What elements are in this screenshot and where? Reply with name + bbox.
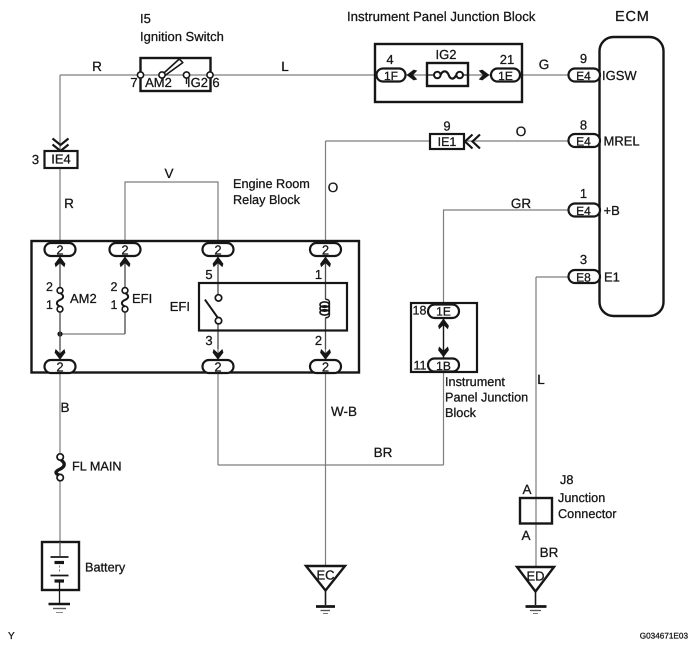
svg-text:B: B <box>60 400 69 415</box>
svg-text:E1: E1 <box>604 270 620 285</box>
fusible link FL MAIN <box>57 454 63 460</box>
svg-text:BR: BR <box>540 545 559 560</box>
relay block top connector 2 (x218) <box>203 243 234 256</box>
svg-text:1: 1 <box>111 298 118 312</box>
svg-text:1: 1 <box>580 186 587 201</box>
svg-text:Block: Block <box>445 406 477 420</box>
wire AM2 column / B down to battery <box>59 243 61 557</box>
down arrow above bottom connector x218 <box>213 349 224 360</box>
svg-text:J8: J8 <box>560 473 573 487</box>
connector 1E <box>491 69 520 82</box>
wire R vertical left column down to relay block <box>59 75 61 243</box>
svg-text:Battery: Battery <box>85 561 126 575</box>
svg-text:1: 1 <box>46 298 53 312</box>
relay EFI box <box>199 283 347 331</box>
connector IE4 chevrons <box>53 139 69 152</box>
svg-text:2: 2 <box>322 242 329 257</box>
up arrow below top connector x218 <box>213 257 224 268</box>
relay block internal wire stubs (darker) <box>60 255 326 350</box>
svg-text:IE1: IE1 <box>438 135 457 149</box>
wire R/L/G horizontal from left corner through ignition switch to ECM IGSW <box>60 74 572 76</box>
instrument panel junction block 2 box <box>411 303 477 372</box>
svg-text:2: 2 <box>322 359 329 374</box>
svg-text:1E: 1E <box>436 305 451 319</box>
svg-text:+B: +B <box>604 203 620 218</box>
svg-text:1E: 1E <box>498 69 513 83</box>
ignition switch AM2 contact <box>159 72 165 78</box>
connector IE4 box <box>45 151 78 168</box>
svg-text:L: L <box>281 59 289 74</box>
svg-text:7: 7 <box>130 75 137 90</box>
battery ground <box>49 603 71 606</box>
svg-text:11: 11 <box>414 359 427 373</box>
wire O vertical down to relay block <box>325 141 327 243</box>
wire relay coil column / W-B down to EC ground <box>325 243 327 566</box>
svg-text:I5: I5 <box>140 11 151 26</box>
connector IE1 box <box>430 134 464 149</box>
svg-text:IG2: IG2 <box>187 75 208 90</box>
svg-text:1B: 1B <box>436 359 451 373</box>
svg-text:5: 5 <box>205 267 212 282</box>
fuse AM2 <box>57 288 63 294</box>
svg-text:Y: Y <box>8 631 15 642</box>
relay block bottom connector 2 (x325) <box>310 360 341 373</box>
relay block top connector 2 (x125) <box>110 243 141 256</box>
svg-text:3: 3 <box>205 333 212 348</box>
fuse EFI <box>122 288 128 294</box>
svg-text:V: V <box>164 166 173 181</box>
svg-text:E4: E4 <box>576 134 591 148</box>
svg-text:FL MAIN: FL MAIN <box>72 460 122 474</box>
svg-text:EFI: EFI <box>132 291 152 306</box>
relay block top connector 2 (x325) <box>310 243 341 256</box>
svg-text:2: 2 <box>46 280 53 294</box>
up arrow below top connector x325 <box>320 257 331 268</box>
svg-text:E4: E4 <box>576 69 591 83</box>
wire GR vertical down to 1E <box>443 210 445 305</box>
svg-text:1F: 1F <box>384 69 398 83</box>
svg-text:A: A <box>522 482 531 497</box>
connector 1F <box>377 69 406 82</box>
wire junction branch AM2 to EFI <box>60 333 125 335</box>
ground ED stem and bars <box>535 592 537 606</box>
wire relay switch column / BR down <box>217 243 219 465</box>
svg-text:Panel Junction: Panel Junction <box>445 391 528 405</box>
ignition switch IG2 contact stem <box>186 78 188 84</box>
engine room relay block box <box>32 241 360 373</box>
svg-text:ECM: ECM <box>615 9 650 25</box>
svg-text:9: 9 <box>443 119 450 134</box>
svg-text:Junction: Junction <box>558 491 605 505</box>
instrument panel junction block 1 box <box>375 44 522 102</box>
wire O/MREL horizontal <box>326 140 573 142</box>
ground ED triangle <box>517 567 554 592</box>
ground EC triangle <box>306 566 345 591</box>
wire EFI fuse column <box>124 243 126 334</box>
ignition switch I5 box <box>141 58 211 91</box>
pin E8-3 E1 <box>569 270 601 283</box>
ground EC stem and bars <box>325 591 327 606</box>
svg-text:E4: E4 <box>576 204 591 218</box>
up arrow below top connector x60 <box>55 257 66 268</box>
arrow right into 1E <box>479 70 490 81</box>
svg-text:AM2: AM2 <box>145 75 172 90</box>
ignition switch pin 6 contact <box>207 72 213 78</box>
svg-text:3: 3 <box>32 152 39 167</box>
arrow line 1E to 1B <box>443 318 445 358</box>
relay block bottom connector 2 (x60) <box>45 360 76 373</box>
pin E4-9 IGSW <box>569 69 601 82</box>
junction dot <box>57 331 62 336</box>
battery plates <box>51 556 69 558</box>
svg-text:O: O <box>328 180 339 195</box>
connector 1B (11) <box>428 359 459 372</box>
ECM box <box>600 37 664 316</box>
svg-text:R: R <box>64 196 74 211</box>
svg-text:IE4: IE4 <box>51 152 71 167</box>
battery box <box>42 542 79 590</box>
wire 1B vertical down to BR <box>443 371 445 465</box>
battery internal wire <box>59 542 61 556</box>
svg-text:1: 1 <box>315 267 322 282</box>
wire L vertical down to ED ground <box>535 277 537 567</box>
svg-text:2: 2 <box>315 333 322 348</box>
svg-text:Ignition Switch: Ignition Switch <box>140 29 224 44</box>
relay block bottom connector 2 (x218) <box>203 360 234 373</box>
svg-text:W-B: W-B <box>331 404 357 419</box>
svg-text:Instrument Panel Junction Bloc: Instrument Panel Junction Block <box>347 9 536 24</box>
svg-text:IG2: IG2 <box>436 47 457 62</box>
svg-text:L: L <box>537 372 545 387</box>
svg-text:R: R <box>92 59 102 74</box>
svg-text:GR: GR <box>511 196 532 211</box>
fuse IG2 element <box>427 74 468 76</box>
svg-text:8: 8 <box>580 118 587 133</box>
down arrow above bottom connector x60 <box>55 349 66 360</box>
wire V loop between relay block pins <box>125 182 218 243</box>
svg-text:2: 2 <box>121 242 128 257</box>
wire GR horizontal to +B <box>443 209 572 211</box>
connector 1E (18) <box>428 305 459 319</box>
svg-text:EC: EC <box>316 568 334 583</box>
pin E4-1 +B <box>569 204 601 217</box>
fuse IG2 box <box>427 63 468 86</box>
relay switch lever <box>205 300 218 318</box>
ignition switch pin 7 contact <box>137 72 143 78</box>
svg-text:G: G <box>539 57 550 72</box>
ignition switch lever <box>163 59 183 75</box>
svg-text:2: 2 <box>214 359 221 374</box>
wire BR horizontal <box>218 464 444 466</box>
up arrow below top connector x125 <box>120 257 131 268</box>
J8 junction connector box <box>520 498 552 524</box>
relay coil <box>326 299 330 318</box>
svg-text:MREL: MREL <box>604 134 640 149</box>
svg-text:4: 4 <box>386 52 393 67</box>
pin E4-8 MREL <box>569 134 601 147</box>
svg-text:IGSW: IGSW <box>602 68 637 83</box>
svg-text:3: 3 <box>580 252 587 267</box>
relay block top connector 2 (x60) <box>45 243 76 256</box>
svg-text:A: A <box>521 528 530 543</box>
svg-text:EFI: EFI <box>170 299 190 314</box>
svg-text:ED: ED <box>526 569 544 584</box>
svg-text:E8: E8 <box>576 270 591 284</box>
svg-text:18: 18 <box>413 304 427 318</box>
connector IE1 chevrons <box>465 135 480 149</box>
svg-text:21: 21 <box>500 52 514 67</box>
svg-text:AM2: AM2 <box>70 291 97 306</box>
svg-text:Relay Block: Relay Block <box>233 193 301 207</box>
svg-text:2: 2 <box>56 359 63 374</box>
relay switch contacts <box>215 295 221 301</box>
down arrowhead upper <box>438 319 449 330</box>
svg-text:G034671E03: G034671E03 <box>640 632 689 641</box>
svg-text:Instrument: Instrument <box>445 375 505 389</box>
svg-text:2: 2 <box>111 280 118 294</box>
down arrow above bottom connector x325 <box>320 349 331 360</box>
ignition switch IG2 contact <box>183 72 189 78</box>
svg-text:9: 9 <box>580 51 587 66</box>
svg-text:BR: BR <box>374 445 393 460</box>
down arrowhead lower <box>438 347 449 358</box>
svg-text:6: 6 <box>212 75 219 90</box>
wire E1 horizontal <box>536 276 572 278</box>
arrow left into 1F <box>407 70 418 81</box>
svg-text:2: 2 <box>56 242 63 257</box>
svg-text:Connector: Connector <box>558 507 617 521</box>
svg-text:Engine Room: Engine Room <box>233 177 310 191</box>
svg-text:2: 2 <box>214 242 221 257</box>
battery stem to ground <box>59 581 61 603</box>
svg-text:O: O <box>516 124 527 139</box>
